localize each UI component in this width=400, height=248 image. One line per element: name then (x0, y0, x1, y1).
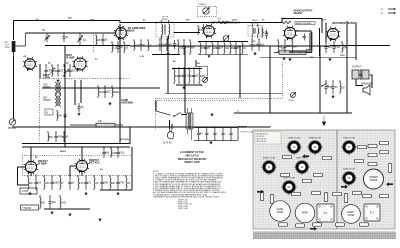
ground g1 (64, 115, 67, 118)
osc cap C9 (77, 103, 84, 112)
svg-text:68K: 68K (105, 153, 110, 155)
series resistor on bus R21 (281, 19, 291, 24)
output stage parts (277, 39, 297, 53)
wire volume feed (196, 60, 208, 76)
boxed label osc trans (20, 188, 37, 194)
ground V4 row (208, 55, 211, 58)
wire vert x120 (119, 24, 121, 127)
wire bus B+ y127 (12, 126, 270, 128)
chassis divider (336, 130, 338, 229)
svg-text:GANG: GANG (277, 208, 284, 211)
V4 grid cap (202, 24, 205, 32)
svg-text:TUBE V3 DET: TUBE V3 DET (288, 138, 302, 140)
wire bottom section floor (44, 208, 90, 210)
power switch SW1 (173, 113, 182, 117)
svg-text:1MEG: 1MEG (113, 92, 120, 94)
svg-text:68K: 68K (168, 45, 173, 47)
wire v8 drop (81, 172, 83, 176)
coupling parts (229, 41, 246, 55)
svg-text:BEAM PWR AMPL: BEAM PWR AMPL (296, 22, 312, 25)
filter capacitor ladder C30 (194, 127, 238, 144)
svg-text:10K: 10K (37, 183, 42, 185)
chassis front band (253, 232, 396, 240)
resistor R2 front (96, 34, 102, 46)
ground g14 (69, 213, 72, 216)
pointer arrow to chassis (322, 116, 326, 126)
ground g8 (332, 95, 335, 98)
IF transformer T1 (156, 17, 174, 40)
svg-text:ANT: ANT (43, 97, 48, 100)
under-chassis can 1 (270, 201, 291, 222)
svg-text:TRANS: TRANS (370, 179, 378, 182)
loop antenna scalloped shield (289, 32, 312, 53)
svg-text:PHONO: PHONO (8, 128, 17, 130)
chassis part label 25 (360, 223, 369, 226)
IF2 secondary parts (250, 38, 264, 51)
chassis part label 27 (283, 155, 292, 158)
wire detector rail y66 (172, 68, 202, 70)
capacitor C3 front (101, 34, 108, 46)
ground g5 (211, 113, 214, 116)
power transformer T4 (186, 108, 193, 140)
svg-text:ELECT: ELECT (347, 212, 355, 214)
chassis part label 28 (323, 156, 332, 159)
svg-text:56K: 56K (111, 183, 116, 185)
svg-text:330K: 330K (103, 183, 109, 185)
chassis part label 8 (368, 162, 377, 165)
svg-text:470K: 470K (57, 137, 63, 139)
V7 cathode parts (27, 175, 64, 190)
svg-text:OUTPUT: OUTPUT (352, 67, 362, 69)
V5 plate wire (296, 31, 311, 50)
V5 grid resistor (262, 27, 269, 38)
wire V4 rail bottom (198, 54, 248, 56)
power wiring (156, 101, 187, 130)
trimmer arrow A2 (63, 69, 69, 76)
V7 screen parts (68, 175, 109, 190)
wire RF rail y33 (26, 32, 116, 34)
svg-text:20K: 20K (58, 115, 63, 117)
wire vert x40 (39, 64, 41, 78)
junction dot ant (13, 53, 14, 54)
tube socket V8 (341, 171, 357, 186)
capacitor C12 (173, 40, 178, 49)
wire left column (13, 56, 15, 119)
svg-text:1500: 1500 (335, 47, 341, 49)
chassis part label 18 (353, 191, 362, 194)
adjust arrow 2 (302, 154, 309, 158)
phono motor M1 (8, 119, 17, 130)
under-chassis can 2 (295, 203, 315, 223)
adjust arrow 4 (386, 182, 393, 186)
osc transformer L2 (43, 83, 61, 94)
tube socket V2 (294, 160, 310, 175)
chassis part label 6 (368, 153, 377, 156)
ant transformer L3 (43, 96, 61, 107)
shield box IF-osc dotted (22, 155, 132, 175)
ground g0 (57, 79, 60, 82)
svg-text:TUBE V4 DET: TUBE V4 DET (309, 138, 323, 140)
chassis part label 13 (292, 192, 301, 195)
svg-text:TONE: TONE (288, 100, 294, 102)
tube V5 audio output (283, 26, 298, 41)
svg-text:OSC: OSC (43, 85, 48, 87)
svg-text:SPEAKER: SPEAKER (361, 83, 372, 86)
RF plate parts (111, 41, 128, 53)
chassis layout background (253, 130, 395, 229)
svg-text:TUNING: TUNING (198, 4, 206, 6)
ground g11 (85, 192, 88, 195)
on-off switch SW1 (321, 83, 328, 87)
wire bottom-left top rail (22, 143, 130, 145)
chassis part label 4 (358, 145, 367, 148)
svg-text:2.2K: 2.2K (79, 183, 84, 185)
V5 plate riser (308, 33, 310, 50)
chassis part label 14 (312, 191, 321, 194)
boxed label beam power (295, 22, 315, 25)
chassis part label 24 (336, 223, 345, 226)
FM input parts (102, 147, 125, 158)
series resistor on bus R20 (218, 19, 228, 24)
svg-text:.002: .002 (225, 48, 230, 50)
svg-text:.002: .002 (106, 92, 111, 94)
svg-text:POWER: POWER (369, 177, 378, 179)
boxed label B (45, 109, 53, 115)
shield dotted power (155, 100, 245, 102)
chassis part label 7 (355, 159, 364, 162)
junction dot IFT drop (167, 93, 168, 94)
osc coil dashed (92, 33, 94, 52)
tube socket V7 (341, 140, 357, 155)
trimmer A6 (78, 33, 87, 46)
IF1 secondary parts (158, 38, 172, 51)
chassis part label 9 (380, 141, 389, 144)
svg-text:1K: 1K (218, 19, 221, 21)
chassis part label 5 (368, 144, 377, 147)
wire IFT1 to V4 (174, 32, 200, 34)
svg-text:56K: 56K (343, 47, 348, 49)
ground g7 (283, 57, 286, 60)
svg-text:ALIGN A1 A2IF 455 KCA5 1620 KC: ALIGN A1 A2IF 455 KCA5 1620 KCA6 1400 KC (257, 133, 268, 144)
chassis part label 16 (333, 192, 342, 195)
speaker SP1 (361, 83, 372, 96)
wire B minus y93 (165, 92, 282, 94)
chassis part label 21 (279, 223, 288, 226)
ground g13 (99, 218, 102, 221)
wire bottom return y190 (100, 147, 132, 190)
tube V1 6SA7 converter (23, 57, 51, 79)
tube V6 rectifier (326, 22, 356, 41)
wire vert x65 (64, 46, 66, 148)
svg-text:SPKR: SPKR (302, 213, 309, 215)
wire V8 wrap (70, 166, 76, 176)
IF transformer T2 (248, 20, 262, 38)
svg-text:COND: COND (348, 215, 355, 217)
V5 plate bypass cap (303, 34, 306, 41)
svg-text:56K: 56K (49, 137, 54, 139)
wire vert x356 (355, 23, 357, 61)
power supply parts (324, 41, 347, 53)
svg-text:.002: .002 (45, 183, 50, 185)
1st AF parts (199, 41, 230, 55)
tube socket V5 (281, 180, 297, 195)
mixer bias parts (97, 85, 119, 98)
svg-text:56K: 56K (191, 47, 196, 49)
svg-text:TRANS: TRANS (43, 99, 51, 102)
svg-text:68K: 68K (293, 46, 298, 48)
svg-text:1 OSC: 1 OSC (22, 191, 29, 193)
wire V4 rail top (198, 41, 248, 43)
svg-text:RECTIFIER 35Z5GT: RECTIFIER 35Z5GT (333, 22, 357, 25)
filter choke L5 (238, 126, 247, 127)
wire B+ top right (282, 19, 322, 34)
svg-text:7 TRANS: 7 TRANS (22, 207, 32, 210)
output transformer T3 (352, 67, 369, 81)
chassis part label 1 (281, 173, 290, 176)
chassis part label 10 (380, 150, 389, 153)
svg-text:TRANS: TRANS (43, 86, 51, 89)
chassis part label 15 (324, 193, 327, 202)
capacitor C2 front (62, 33, 69, 42)
wire V6 column (320, 23, 327, 57)
dot front2 (79, 32, 80, 33)
svg-text:1ST AF AMPLIFIER 6AV6: 1ST AF AMPLIFIER 6AV6 (211, 22, 241, 25)
osc section parts (44, 64, 76, 77)
ground g9 (29, 192, 32, 195)
wire vert x270 (269, 46, 271, 113)
tuning indicator (203, 7, 210, 14)
svg-text:G: G (381, 13, 383, 15)
AVC feed parts (47, 131, 69, 142)
tube V4 6AU6 (202, 22, 241, 39)
boxed label ant trans (21, 205, 39, 210)
svg-text:1500: 1500 (119, 153, 125, 155)
terminal stubs right (381, 8, 395, 15)
ground g12 (117, 192, 120, 195)
ground g10 (51, 211, 54, 214)
svg-text:TUBE V2 DET: TUBE V2 DET (296, 158, 310, 160)
svg-text:470K: 470K (119, 183, 125, 185)
chassis part label 23 (313, 223, 322, 226)
svg-text:TUBE V8 DET: TUBE V8 DET (343, 169, 357, 171)
wire vert x185 (184, 46, 186, 113)
chassis part label 12 (270, 195, 273, 204)
IFT1 secondary drops (152, 36, 180, 93)
ground heater1 (329, 58, 332, 61)
osc verticals (56, 80, 81, 110)
tube V7 6SK7GT (24, 160, 48, 175)
V8 plate parts (109, 175, 130, 190)
svg-text:10K: 10K (99, 92, 104, 94)
tube socket V3 (286, 140, 302, 155)
volume on-off pot (223, 35, 229, 41)
shield dotted x39.5 (39, 78, 41, 143)
switch area parts (324, 80, 345, 94)
chassis part label 20 (380, 194, 389, 197)
ground g4 (183, 86, 186, 89)
wire V7 wrap left (18, 167, 29, 185)
tube V3 6BA6 RF amp (114, 26, 146, 40)
wire top bus main (120, 21, 282, 23)
tube V8 6SQ7GT (75, 159, 100, 174)
V4 grid resistor (198, 25, 204, 35)
dot front1 (63, 32, 64, 33)
RF grid parts (133, 39, 152, 51)
tube socket V4 (307, 140, 323, 155)
svg-text:COND: COND (277, 212, 284, 214)
svg-text:TUBE V7 DET: TUBE V7 DET (343, 138, 357, 140)
adjust arrow 1 (257, 190, 264, 194)
ground heater2 (289, 58, 292, 61)
wire vert x320 (319, 46, 321, 113)
tube socket V1 (261, 160, 277, 175)
wire y88 left (42, 87, 160, 89)
chassis part label 19 (363, 194, 372, 197)
trimmer A5 (42, 29, 50, 42)
svg-text:.002: .002 (71, 71, 76, 73)
svg-text:1MEG: 1MEG (53, 183, 60, 185)
svg-text:.005: .005 (51, 202, 56, 204)
shield dotted y78 (40, 77, 130, 79)
svg-text:117V AC: 117V AC (163, 142, 172, 145)
V5 grid cap (265, 30, 268, 39)
svg-text:.005: .005 (112, 153, 117, 155)
svg-text:1ST IF455KC: 1ST IF455KC (162, 17, 169, 21)
heater string wire (260, 57, 356, 59)
power transformer can (364, 169, 384, 189)
chassis part label 26 (388, 164, 391, 173)
adjust arrow 3 (341, 185, 348, 189)
adjust arrow 5 (310, 227, 317, 231)
svg-text:TUBE V5 DET: TUBE V5 DET (283, 178, 297, 180)
wire vert x240 (239, 46, 241, 98)
tube V2 6SK7 IF (66, 54, 88, 72)
chassis part label 2 (314, 173, 323, 176)
svg-text:22K: 22K (97, 40, 102, 42)
shield box audio dotted (155, 62, 282, 130)
antenna coil L1 (5, 33, 26, 56)
tuning indicator shield box dashed (197, 6, 216, 16)
wire bus y113 (234, 112, 352, 114)
candohm resistor R30 (70, 121, 123, 127)
interstage parts (177, 39, 195, 55)
wire top bus left (14, 20, 121, 22)
chassis square 1 (317, 204, 334, 222)
ground g6 (254, 52, 257, 55)
chassis corner label (255, 132, 281, 145)
ground g2 (109, 102, 112, 105)
trimmer arrow A1 (49, 68, 55, 75)
line cord plug (163, 130, 174, 145)
svg-text:1500: 1500 (61, 202, 67, 204)
wire riser x130 (129, 127, 131, 144)
wire detector rail y84 (176, 84, 202, 86)
chassis part label 3 (303, 179, 312, 182)
detector parts (173, 67, 205, 84)
svg-text:10K: 10K (219, 48, 224, 50)
wire vert x347 (346, 21, 348, 113)
chassis part label 11 (260, 192, 263, 201)
wire antenna lead (13, 21, 15, 41)
under-chassis can 3 (342, 205, 361, 224)
bus junction dots (39, 22, 345, 128)
hatched resistor R-candohm (274, 49, 312, 55)
tone control pot (291, 92, 296, 97)
wire speaker leads (356, 75, 372, 88)
ground g3 (167, 52, 170, 55)
svg-text:330K: 330K (286, 46, 292, 48)
svg-text:10M: 10M (199, 30, 204, 32)
wire bottom-left risers (31, 127, 120, 161)
chassis part label 17 (344, 194, 347, 203)
wire bus y45 (45, 45, 390, 48)
svg-text:.005: .005 (327, 47, 332, 49)
svg-text:TUBE V1 DET: TUBE V1 DET (263, 158, 277, 160)
wire v7 drop (30, 173, 32, 176)
svg-text:6SQ7GTDET AVC: 6SQ7GTDET AVC (89, 159, 100, 164)
osc padder parts (57, 110, 67, 121)
wire bottom-left rail2 (22, 146, 130, 148)
svg-text:68K: 68K (41, 202, 46, 204)
chassis part label 22 (296, 224, 305, 227)
volume control pot (203, 77, 208, 82)
ground osc (78, 113, 81, 116)
svg-text:330K: 330K (200, 76, 206, 78)
chassis square 2 (364, 204, 380, 221)
V8 grid parts (39, 195, 66, 209)
